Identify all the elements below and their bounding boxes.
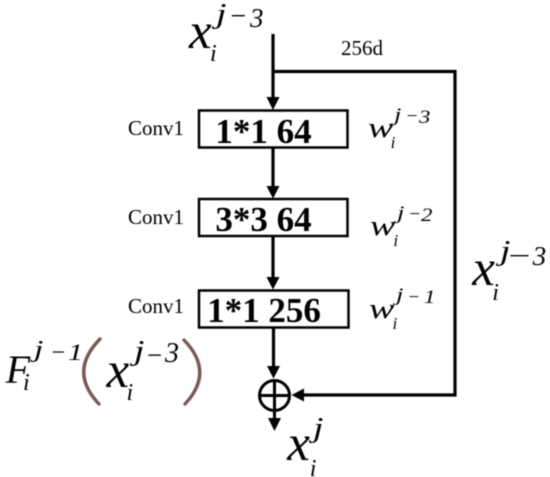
arrowhead into box 1*1 256 [267, 277, 280, 290]
left parenthesis of F(x) brown [84, 339, 100, 404]
label: weight w_i^(j-2) [368, 199, 370, 201]
wire: input vertical line into first conv box [271, 34, 274, 99]
label: F_i^(j-1) residual function [2, 335, 4, 337]
label: weight w_i^(j-1) [367, 282, 369, 284]
label: Conv1 second [128, 207, 184, 228]
wire: output arrow below summation [273, 411, 276, 420]
label: box text 1*1 64 [200, 114, 348, 149]
summation plus vertical [273, 381, 276, 411]
label: box text 3*3 64 [200, 202, 348, 237]
wire: box3 down to summation circle [272, 328, 275, 367]
summation plus horizontal [260, 394, 290, 397]
label: box text 1*1 256 [200, 293, 349, 328]
summation node circle [260, 381, 290, 411]
label: 256d [341, 38, 383, 59]
wire: box2 to box3 [271, 237, 274, 278]
box conv1 3*3 64 [199, 199, 348, 236]
label: output x_i^j [283, 412, 285, 414]
arrowhead into box 1*1 64 [267, 97, 280, 110]
box conv1 1*1 256 [199, 291, 349, 328]
arrowhead into box 3*3 64 [267, 186, 280, 199]
wire: box1 to box2 [271, 148, 274, 187]
label: top input x_i^(j-3) [185, 0, 187, 1]
label: x_i^(j-3) inside parentheses [103, 335, 105, 337]
right parenthesis of F(x) brown [184, 340, 200, 404]
wire: skip connection branch 256d path [273, 72, 455, 396]
label: Conv1 third [128, 296, 184, 317]
label: right side x_i^(j-3) [468, 235, 470, 237]
label: Conv1 first [128, 118, 184, 139]
label: weight w_i^(j-3) [365, 101, 367, 103]
arrowhead into summation circle from right [292, 389, 305, 402]
box conv1 1*1 64 [199, 111, 348, 148]
arrowhead into summation circle from top [267, 366, 280, 379]
